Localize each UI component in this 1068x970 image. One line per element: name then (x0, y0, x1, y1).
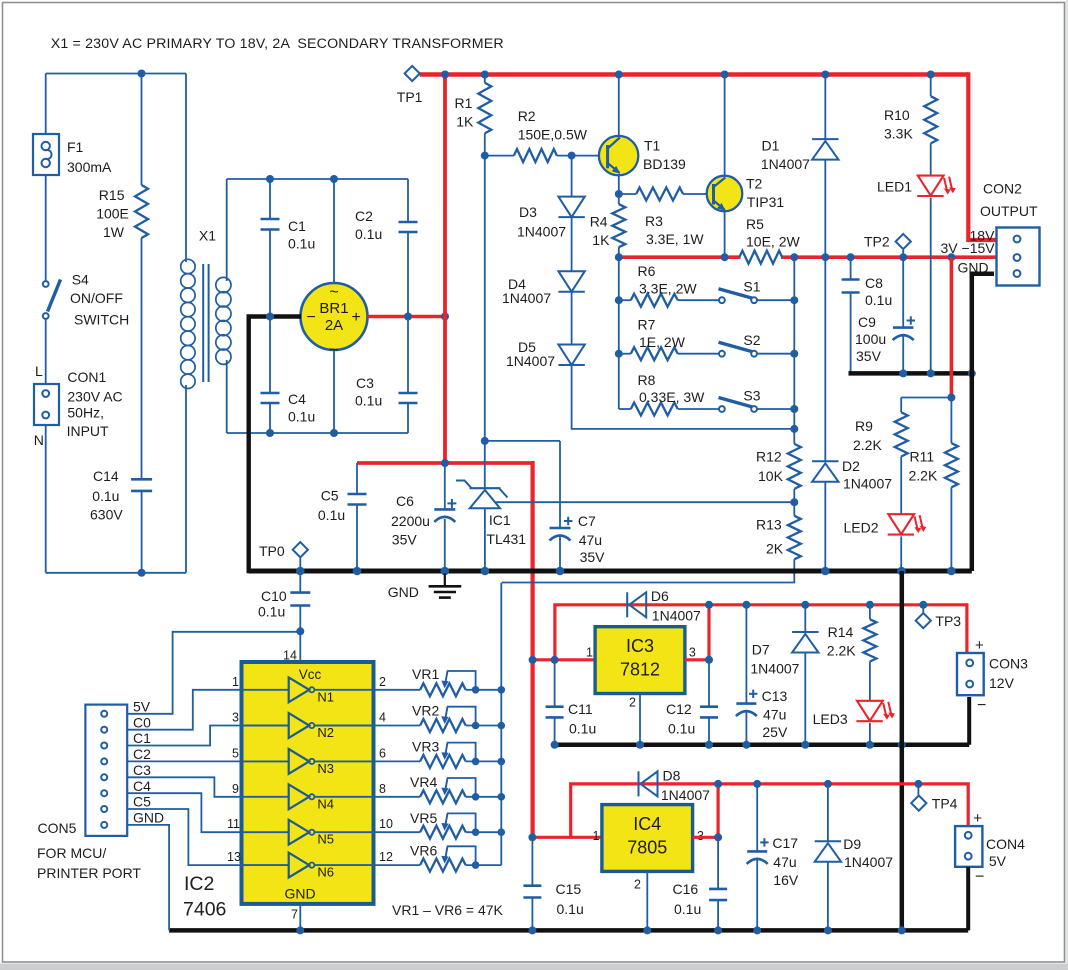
node red mid-riser (441, 459, 449, 467)
wire red mid rail (357, 461, 533, 465)
diode D2 (824, 257, 826, 461)
wire CON4 minus (black) (966, 867, 970, 931)
node bottom rail IC4 pin2 (643, 926, 651, 934)
svg-text:Vcc: Vcc (299, 667, 322, 682)
svg-text:VR5: VR5 (410, 810, 437, 826)
node C10 bottom (296, 627, 304, 635)
svg-text:SWITCH: SWITCH (74, 312, 129, 328)
node rail corner (968, 369, 976, 377)
svg-text:S1: S1 (743, 279, 760, 295)
wire D5 to resistor column (572, 365, 795, 429)
svg-text:2K: 2K (766, 541, 784, 557)
test point TP1 (405, 66, 420, 81)
svg-text:FOR MCU/: FOR MCU/ (37, 845, 106, 861)
wire C0 to pin1 (127, 690, 241, 730)
svg-text:D6: D6 (651, 588, 669, 604)
node C11/D6 anode (551, 656, 559, 664)
svg-text:N4: N4 (317, 796, 334, 811)
wire R8 to S3 (678, 408, 719, 410)
svg-text:10K: 10K (758, 468, 784, 484)
node VR3 tap (498, 758, 506, 766)
svg-text:TP1: TP1 (397, 89, 423, 105)
svg-text:~: ~ (329, 284, 338, 301)
svg-text:0.1u: 0.1u (288, 409, 315, 425)
wire F1 to S4 (45, 175, 47, 281)
node VR4 tap (498, 793, 506, 801)
test point TP4 (917, 784, 919, 796)
capacitor C3 (407, 317, 409, 394)
svg-text:2.2K: 2.2K (827, 643, 856, 659)
svg-text:1E, 2W: 1E, 2W (639, 334, 686, 350)
potentiometer VR1 (374, 689, 421, 691)
wire R6 row left (619, 299, 631, 301)
capacitor C4 (269, 317, 271, 394)
node top-left junction (138, 70, 146, 78)
svg-text:D8: D8 (663, 768, 681, 784)
svg-text:C5: C5 (133, 794, 151, 810)
node top rail BR1 (330, 175, 338, 183)
svg-text:N3: N3 (317, 761, 334, 776)
svg-text:TIP31: TIP31 (747, 194, 785, 210)
node D1 on output (821, 253, 829, 261)
node TP2/C9 (899, 253, 907, 261)
wire BR1 minus (black) (249, 317, 301, 574)
svg-text:1: 1 (586, 646, 593, 660)
wire C10 to IC2 pin14 (299, 631, 301, 662)
LED LED1 (918, 176, 944, 196)
svg-text:C1: C1 (288, 218, 306, 234)
svg-text:R12: R12 (756, 449, 782, 465)
resistor R15 (135, 185, 148, 238)
svg-text:0.1u: 0.1u (258, 604, 285, 620)
node bus C5 (353, 567, 362, 576)
svg-text:GND: GND (388, 584, 419, 600)
svg-text:ON/OFF: ON/OFF (70, 290, 123, 306)
node bus-R1 (481, 71, 489, 79)
node bus IC1 (481, 567, 490, 576)
svg-text:−: − (307, 309, 316, 326)
capacitor C5 (356, 463, 358, 494)
node R2-D3 junction (568, 152, 576, 160)
node C1-C4 on black (266, 313, 274, 321)
node D8 cathode riser (714, 780, 722, 788)
svg-text:VR4: VR4 (410, 774, 437, 790)
svg-text:1K: 1K (592, 232, 610, 248)
wire R1 line down (484, 156, 486, 441)
resistor R7 (631, 347, 678, 360)
node R6 left (615, 296, 623, 304)
svg-text:2: 2 (634, 878, 641, 892)
svg-text:INPUT: INPUT (67, 423, 109, 439)
svg-text:3.3K: 3.3K (884, 126, 913, 142)
svg-text:2.2K: 2.2K (853, 437, 882, 453)
svg-text:VR1: VR1 (412, 666, 439, 682)
svg-text:630V: 630V (90, 507, 123, 523)
svg-text:0.1u: 0.1u (355, 393, 382, 409)
svg-text:1: 1 (232, 675, 239, 689)
wire R8 row left (619, 408, 631, 410)
wire C2 to pin5 (127, 760, 241, 762)
svg-text:C4: C4 (133, 778, 151, 794)
svg-text:0.1u: 0.1u (668, 721, 695, 737)
capacitor C11 (554, 660, 556, 707)
node D8 line TP4 (914, 780, 922, 788)
svg-text:S2: S2 (743, 332, 760, 348)
svg-text:50Hz,: 50Hz, (67, 405, 104, 421)
svg-text:C9: C9 (858, 314, 876, 330)
node R4 bottom (615, 253, 623, 261)
wire 5V link (127, 632, 300, 714)
wire TL431 ref line (496, 501, 795, 503)
svg-text:OUTPUT: OUTPUT (980, 203, 1038, 219)
hex inverter IC2 7406 (242, 662, 374, 904)
node rail C13 (742, 741, 750, 749)
node D6 line C13 (742, 601, 750, 609)
diode D4 (558, 271, 584, 292)
svg-text:C6: C6 (396, 493, 414, 509)
svg-text:16V: 16V (773, 872, 799, 888)
resistor R4 (618, 194, 620, 204)
svg-text:IC1: IC1 (489, 512, 511, 528)
wire C4 to pin11 (127, 793, 241, 832)
node IC4 pin3 junction (714, 833, 722, 841)
svg-text:47u: 47u (579, 532, 602, 548)
wire black bottom rail (169, 928, 968, 933)
resistor R2 (485, 155, 514, 157)
svg-text:N6: N6 (317, 865, 334, 880)
svg-text:35V: 35V (580, 549, 606, 565)
svg-text:10E, 2W: 10E, 2W (746, 234, 800, 250)
node bus C7 (556, 567, 565, 576)
svg-text:R7: R7 (638, 317, 656, 333)
resistor R9 (895, 412, 908, 456)
svg-text:TP2: TP2 (864, 234, 890, 250)
svg-text:R5: R5 (746, 216, 764, 232)
node rail C12 (705, 741, 713, 749)
svg-text:F1: F1 (67, 139, 84, 155)
svg-text:N2: N2 (317, 725, 334, 740)
node D8 anode riser (570, 836, 572, 838)
svg-text:11: 11 (227, 817, 240, 831)
wire black C8-C9 rail (849, 371, 972, 376)
node R9/R11 link (947, 394, 955, 402)
inverter N6 (242, 864, 289, 866)
svg-text:R6: R6 (638, 263, 656, 279)
svg-text:IC2: IC2 (184, 873, 214, 895)
wire R7 row left (619, 353, 631, 355)
svg-text:R13: R13 (756, 517, 782, 533)
wire to C7 column (485, 440, 560, 442)
wire S3 to column (757, 408, 794, 410)
resistor R11 (950, 398, 952, 444)
wire VR tap bus (500, 583, 502, 866)
svg-text:1K: 1K (456, 114, 474, 130)
connector CON1 (34, 384, 59, 425)
svg-text:1N4007: 1N4007 (517, 224, 566, 240)
svg-text:BR1: BR1 (319, 300, 348, 317)
svg-text:3V −15V: 3V −15V (941, 240, 996, 256)
transformer X1 secondary (226, 179, 228, 281)
node rail LED1 (927, 369, 935, 377)
svg-text:D1: D1 (762, 138, 780, 154)
node VR5 tap (498, 828, 506, 836)
wire red D8 line (571, 784, 969, 837)
svg-text:C13: C13 (762, 688, 788, 704)
svg-text:5V: 5V (133, 699, 151, 715)
svg-text:IC3: IC3 (626, 636, 654, 656)
node D6 cathode riser (705, 601, 713, 609)
svg-text:13: 13 (227, 850, 241, 864)
svg-text:9: 9 (232, 782, 239, 796)
svg-text:PRINTER PORT: PRINTER PORT (37, 865, 141, 881)
svg-text:C1: C1 (133, 730, 151, 746)
svg-text:8: 8 (379, 782, 386, 796)
fuse F1 (33, 134, 59, 175)
resistor R6 (631, 294, 678, 307)
potentiometer VR4 (374, 796, 421, 798)
node C8 top (847, 253, 855, 261)
diode D8 (641, 771, 658, 796)
svg-text:N1: N1 (317, 689, 334, 704)
svg-text:1N4007: 1N4007 (843, 476, 892, 492)
svg-text:R15: R15 (99, 187, 125, 203)
svg-text:6: 6 (379, 746, 386, 760)
wire C5 to pin13 (127, 809, 241, 865)
svg-text:C10: C10 (261, 588, 287, 604)
node S2 column (790, 350, 798, 358)
wire IC4 pin2 (646, 871, 648, 930)
transformer X1 primary (185, 74, 187, 263)
node bottom rail riser (898, 926, 906, 934)
svg-text:X1 = 230V AC PRIMARY TO 18V, 2: X1 = 230V AC PRIMARY TO 18V, 2A SECONDAR… (51, 36, 504, 52)
wire bottom-left loop (46, 572, 186, 574)
wire C1 to pin3 (127, 726, 241, 746)
svg-text:LED1: LED1 (877, 179, 912, 195)
node column-D5 junction (790, 425, 798, 433)
wire S2 to column (757, 353, 794, 355)
svg-text:0.1u: 0.1u (288, 236, 315, 252)
svg-text:4: 4 (379, 711, 386, 725)
connector CON2 (997, 228, 1040, 286)
capacitor C13 (745, 605, 747, 704)
regulator IC3 7812 (595, 627, 685, 694)
svg-text:C2: C2 (355, 208, 373, 224)
wire red IC4 pin3 row (693, 836, 719, 839)
capacitor C17 (756, 784, 758, 852)
svg-text:1: 1 (593, 829, 600, 843)
diode D1 (824, 75, 826, 140)
wire R6 to S1 (678, 299, 719, 301)
capacitor C15 (531, 837, 533, 885)
svg-text:C3: C3 (133, 762, 151, 778)
svg-text:35V: 35V (856, 348, 882, 364)
svg-text:−: − (975, 869, 984, 886)
svg-text:T2: T2 (746, 176, 763, 192)
wire top-left loop (46, 73, 186, 75)
node rail C11 (551, 741, 559, 749)
svg-text:C17: C17 (772, 835, 798, 851)
wire CON2 GND (black) (972, 274, 994, 571)
node bus-T1 (615, 71, 623, 79)
switch S1 (719, 297, 725, 303)
svg-text:X1: X1 (199, 228, 216, 244)
wire CON1 to bottom (45, 425, 47, 573)
svg-text:12V: 12V (989, 675, 1015, 691)
svg-text:+: + (973, 810, 982, 827)
node D8 line C17 (753, 780, 761, 788)
svg-text:1N4007: 1N4007 (750, 661, 799, 677)
diode D3 (571, 156, 573, 197)
svg-text:IC4: IC4 (633, 814, 661, 834)
node bottom rail C15 (528, 926, 536, 934)
svg-text:C7: C7 (578, 513, 596, 529)
wire black main riser (900, 571, 905, 930)
svg-text:7: 7 (291, 908, 298, 922)
svg-text:C14: C14 (93, 468, 119, 484)
svg-text:0.1u: 0.1u (355, 226, 382, 242)
wire CON3 minus (black) (967, 697, 971, 745)
svg-text:1N4007: 1N4007 (502, 290, 551, 306)
svg-text:TP4: TP4 (932, 796, 958, 812)
svg-text:C0: C0 (133, 714, 151, 730)
svg-text:1N4007: 1N4007 (761, 156, 810, 172)
capacitor C1 (269, 179, 271, 219)
svg-text:TL431: TL431 (486, 531, 526, 547)
svg-text:1W: 1W (103, 224, 125, 240)
svg-text:R1: R1 (455, 95, 473, 111)
svg-text:0.1u: 0.1u (318, 507, 345, 523)
wire D3-D4 (571, 217, 573, 271)
svg-text:C8: C8 (865, 275, 883, 291)
node pin3 junction (705, 656, 713, 664)
regulator IC4 7805 (602, 805, 693, 872)
svg-text:12: 12 (379, 850, 393, 864)
svg-text:2200u: 2200u (391, 513, 430, 529)
svg-text:+: + (352, 309, 361, 326)
svg-text:R3: R3 (645, 213, 663, 229)
capacitor C6 (444, 463, 446, 509)
potentiometer VR5 (374, 831, 421, 833)
wire red to R9/R11 (950, 257, 954, 397)
node switch column top (790, 253, 798, 261)
svg-text:TP0: TP0 (259, 543, 285, 559)
wire red pin3 row (685, 658, 709, 661)
node D6 line D7 (801, 601, 809, 609)
svg-text:CON5: CON5 (38, 820, 77, 836)
node bottom rail BR1 (330, 429, 338, 437)
wire BR1 plus (red) (368, 315, 446, 319)
resistor R13 (793, 502, 795, 516)
svg-text:1N4007: 1N4007 (506, 353, 555, 369)
svg-text:C2: C2 (133, 746, 151, 762)
wire C14 to bottom (141, 491, 143, 573)
node red riser at BR1 row (441, 313, 449, 321)
resistor R1 (484, 75, 486, 83)
transistor T1 (618, 75, 620, 141)
node bottom rail C16 (714, 926, 722, 934)
wire left resistor column (618, 257, 620, 409)
svg-text:5V: 5V (989, 853, 1007, 869)
wire cap-box bottom rail (227, 432, 408, 434)
node bus R11 (947, 567, 956, 576)
transistor T2 (724, 75, 726, 179)
svg-text:5: 5 (232, 746, 239, 760)
wire black IC3 rail (555, 743, 970, 748)
svg-text:N5: N5 (317, 832, 334, 847)
resistor R10 (930, 75, 932, 97)
svg-text:VR3: VR3 (412, 739, 439, 755)
svg-text:BD139: BD139 (643, 156, 686, 172)
node C2-C3 on red (404, 313, 412, 321)
resistor R8 (631, 403, 678, 416)
resistor R3 (619, 193, 636, 195)
svg-text:+: + (975, 637, 984, 654)
node VR1 tap (498, 686, 506, 694)
capacitor C8 (850, 257, 852, 279)
svg-text:VR6: VR6 (410, 843, 437, 859)
svg-text:3.3E, 2W: 3.3E, 2W (639, 280, 697, 296)
node bottom-left junction (138, 569, 146, 577)
node bus-riser (441, 71, 449, 79)
node main riser pin1 IC4 (528, 833, 536, 841)
wire cap-box top rail (227, 178, 408, 180)
node R7 left (615, 350, 623, 358)
svg-text:C12: C12 (666, 701, 692, 717)
node R12-R13 junction (790, 498, 798, 506)
wire red IC4 pin1 row (533, 836, 602, 839)
svg-text:S4: S4 (72, 272, 89, 288)
shunt regulator IC1 TL431 (484, 441, 486, 488)
LED LED2 (888, 514, 914, 534)
svg-text:C16: C16 (673, 881, 699, 897)
capacitor C7 (559, 527, 561, 529)
node rail C9 (899, 369, 907, 377)
node VR2 tap (498, 722, 506, 730)
node bus C6 (441, 567, 450, 576)
svg-text:3: 3 (232, 711, 239, 725)
node bus LED2 (897, 567, 906, 576)
wire switch column (793, 257, 795, 444)
svg-text:3.3E, 1W: 3.3E, 1W (646, 231, 704, 247)
node R1 bottom (481, 152, 489, 160)
wire black ground bus (249, 569, 972, 574)
transformer X1 core (202, 264, 204, 382)
node S3 column (790, 405, 798, 413)
diode D9 (827, 784, 829, 841)
svg-text:R9: R9 (855, 418, 873, 434)
connector CON4 (955, 826, 982, 867)
node D6 line TP3 (919, 601, 927, 609)
node D8 line D9 (824, 780, 832, 788)
inverter N1 (242, 689, 289, 691)
wire D4-D5 (571, 292, 573, 345)
svg-text:CON1: CON1 (67, 369, 106, 385)
svg-text:N: N (34, 432, 44, 448)
svg-text:0.33E, 3W: 0.33E, 3W (639, 389, 705, 405)
svg-text:LED3: LED3 (813, 711, 848, 727)
svg-text:C4: C4 (288, 391, 306, 407)
wire S1 to column (757, 299, 794, 301)
node bus D2 (821, 567, 830, 576)
svg-text:VR2: VR2 (412, 703, 439, 719)
wire GND to bus (127, 825, 169, 931)
svg-text:R4: R4 (590, 214, 608, 230)
wire red main riser (530, 461, 534, 837)
svg-text:7805: 7805 (627, 838, 667, 858)
svg-text:0.1u: 0.1u (674, 901, 701, 917)
svg-text:CON4: CON4 (986, 836, 1025, 852)
svg-text:25V: 25V (762, 724, 788, 740)
